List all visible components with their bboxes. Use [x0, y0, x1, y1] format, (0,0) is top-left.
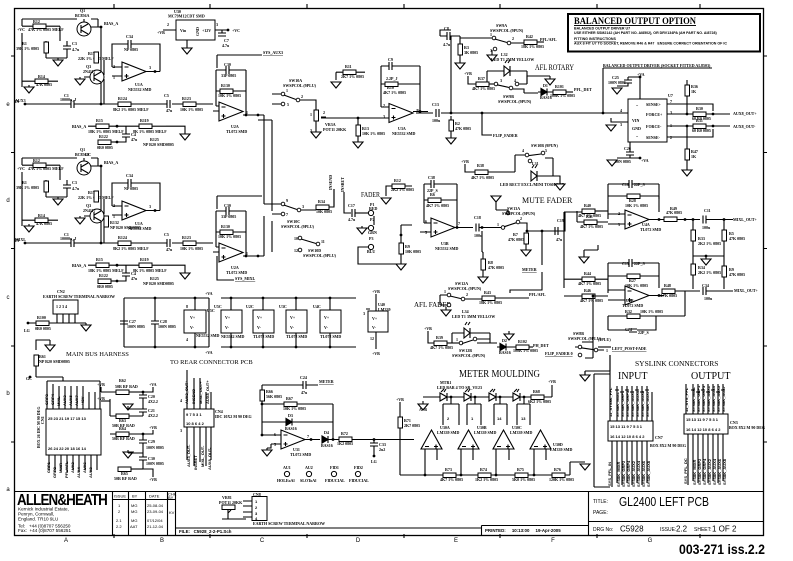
svg-text:+VA: +VA — [149, 382, 157, 387]
resistor R132 — [104, 216, 141, 230]
svg-text:50R RF RAD: 50R RF RAD — [115, 384, 138, 389]
svg-text:d: d — [6, 198, 9, 204]
svg-text:ISSUE: ISSUE — [114, 494, 126, 499]
svg-text:SWSPCOL (9PLU): SWSPCOL (9PLU) — [303, 253, 337, 258]
resistor R63 — [110, 399, 143, 428]
switch SW12A — [440, 289, 482, 307]
svg-text:R42: R42 — [526, 34, 533, 39]
svg-text:R40: R40 — [584, 203, 591, 208]
ground for GND pin — [611, 118, 628, 131]
svg-text:2K2 1% 0805: 2K2 1% 0805 — [391, 187, 414, 192]
svg-text:25 23 21 19 17 15 13: 25 23 21 19 17 15 13 — [48, 416, 87, 421]
resistor R45 — [722, 256, 745, 289]
switch SW13A — [491, 196, 536, 229]
svg-text:100N 0805: 100N 0805 — [146, 461, 164, 466]
capacitor C19 series — [555, 212, 565, 242]
LED D7 — [489, 389, 496, 401]
resistor R40 — [578, 203, 608, 218]
svg-text:GC: GC — [85, 152, 91, 157]
svg-text:G: G — [648, 538, 653, 544]
svg-text:2.2: 2.2 — [676, 525, 688, 534]
ground — [504, 334, 514, 340]
resistor R27 — [608, 274, 659, 288]
svg-text:R100: R100 — [37, 315, 46, 320]
svg-text:2: 2 — [512, 36, 514, 41]
resistor R62 — [115, 378, 144, 395]
svg-text:USE EITHER SSM2142 (AH PART N: USE EITHER SSM2142 (AH PART NO. AI8502),… — [574, 31, 718, 35]
diode D1 — [538, 83, 553, 100]
svg-text:MIXL: MIXL — [15, 237, 26, 242]
svg-text:47K 0805: 47K 0805 — [729, 236, 745, 241]
svg-text:10: 10 — [294, 236, 298, 241]
svg-text:SWSPCOL (9PLU): SWSPCOL (9PLU) — [281, 224, 315, 229]
switch SW12B — [452, 337, 497, 358]
svg-text:D: D — [356, 538, 361, 544]
resistor R100 — [35, 315, 51, 331]
resistor R2 vertical under bus — [449, 116, 471, 138]
capacitor C10 — [608, 180, 659, 219]
svg-text:+VB: +VB — [372, 351, 380, 356]
svg-text:England. TR10 9LU: England. TR10 9LU — [18, 517, 58, 522]
svg-text:47K 0805: 47K 0805 — [729, 272, 745, 277]
resistor R47 — [685, 149, 698, 170]
svg-text:2: 2 — [520, 216, 522, 221]
svg-text:100N 0805: 100N 0805 — [127, 324, 145, 329]
svg-text:MIXR: MIXR — [58, 463, 63, 473]
svg-text:8: 8 — [186, 304, 188, 309]
svg-text:11: 11 — [321, 239, 325, 244]
svg-text:4K7 1% 0805: 4K7 1% 0805 — [580, 298, 603, 303]
ground under regulator — [182, 48, 192, 54]
svg-text:16 14 12 10 8 6 4 2: 16 14 12 10 8 6 4 2 — [686, 427, 721, 432]
diode D4 — [321, 422, 339, 448]
svg-text:1 2 3 4: 1 2 3 4 — [56, 304, 67, 309]
capacitor C25 — [608, 75, 640, 99]
svg-text:TL072 SMD: TL072 SMD — [320, 334, 341, 339]
svg-text:EARTH SCREW TERMINAL NARROW: EARTH SCREW TERMINAL NARROW — [253, 521, 325, 526]
capacitor C28 — [151, 298, 176, 347]
power rails — [221, 298, 356, 347]
wire — [272, 94, 389, 118]
ground — [331, 82, 341, 88]
svg-text:SYS_AUX3: SYS_AUX3 — [263, 50, 283, 55]
resistor R34 — [316, 189, 334, 214]
svg-text:+VB: +VB — [464, 71, 472, 76]
svg-text:100N 0805: 100N 0805 — [158, 324, 176, 329]
top line of title strip — [15, 491, 764, 493]
svg-text:BALANCED OUTPUT DRIVER U7: BALANCED OUTPUT DRIVER U7 — [574, 27, 630, 31]
resistor R37 — [472, 76, 495, 91]
svg-text:1K2 0805: 1K2 0805 — [337, 441, 353, 446]
svg-text:1K: 1K — [691, 154, 697, 159]
svg-text:12: 12 — [370, 336, 374, 341]
svg-text:GRP2: GRP2 — [52, 466, 57, 478]
svg-text:R34: R34 — [318, 199, 325, 204]
svg-text:C9: C9 — [388, 57, 393, 62]
svg-text:4K7 1% 0805: 4K7 1% 0805 — [430, 345, 453, 350]
svg-text:21-12-04: 21-12-04 — [147, 524, 164, 529]
resistor R68 — [528, 389, 551, 404]
svg-text:5K0 1% 0805: 5K0 1% 0805 — [512, 477, 535, 482]
svg-text:SWSPCOL (9PUN): SWSPCOL (9PUN) — [502, 211, 536, 216]
svg-text:KV: KV — [169, 510, 175, 515]
svg-text:V+: V+ — [190, 315, 196, 320]
svg-text:U3C: U3C — [279, 304, 287, 309]
svg-text:AVB: AVB — [419, 407, 427, 412]
LED D6 — [464, 389, 471, 401]
svg-text:56K 0805: 56K 0805 — [266, 394, 282, 399]
svg-text:2.2: 2.2 — [116, 524, 122, 529]
svg-text:2K2 1% 0805: 2K2 1% 0805 — [698, 241, 721, 246]
svg-text:MIXL_OUT+: MIXL_OUT+ — [734, 288, 759, 293]
resistor R3 — [458, 36, 478, 63]
svg-text:9 7 5 3 1: 9 7 5 3 1 — [186, 412, 202, 417]
wire mute bus — [520, 223, 563, 231]
resistor R65 — [114, 467, 143, 481]
svg-text:R68: R68 — [533, 389, 540, 394]
wires below CN3 — [688, 434, 723, 485]
svg-text:1: 1 — [606, 348, 608, 353]
wire U2B out bus — [264, 216, 272, 256]
resistor R49 — [664, 206, 700, 222]
connector CN1 — [36, 407, 101, 455]
svg-text:5: 5 — [545, 148, 547, 153]
op-amp U3A — [383, 103, 418, 136]
svg-text:AUX6: AUX6 — [82, 462, 87, 473]
svg-text:R31: R31 — [696, 118, 703, 123]
svg-text:METER: METER — [319, 379, 334, 384]
ground — [353, 142, 363, 148]
svg-text:003-271 iss.2.2: 003-271 iss.2.2 — [679, 542, 765, 557]
svg-text:FID1: FID1 — [330, 465, 339, 470]
svg-text:R30: R30 — [696, 106, 703, 111]
svg-text:GL2400 LEFT PCB: GL2400 LEFT PCB — [619, 494, 709, 509]
svg-text:V+: V+ — [290, 315, 296, 320]
svg-text:FORCE-: FORCE- — [646, 124, 662, 129]
resistor R73 — [440, 467, 463, 482]
connector CN4 — [184, 409, 214, 427]
ground — [381, 198, 391, 204]
svg-text:3: 3 — [620, 122, 622, 127]
capacitor C20 — [139, 392, 158, 409]
svg-text:4.7u: 4.7u — [348, 217, 356, 222]
svg-text:SWSPCOL (9PUN): SWSPCOL (9PUN) — [498, 99, 532, 104]
svg-text:+VC: +VC — [17, 27, 25, 32]
svg-text:TL072 SMD: TL072 SMD — [290, 452, 311, 457]
svg-text:BY: BY — [132, 494, 138, 499]
svg-text:PAGE:: PAGE: — [593, 510, 608, 516]
svg-text:4: 4 — [514, 78, 516, 83]
svg-text:C19: C19 — [557, 218, 564, 223]
svg-text:NE5532 SMD: NE5532 SMD — [196, 333, 220, 338]
resistor R35 — [722, 220, 745, 257]
svg-text:+VB: +VB — [157, 30, 165, 35]
svg-text:4X2.2: 4X2.2 — [148, 399, 158, 404]
comparator U30D — [530, 430, 572, 452]
svg-text:7: 7 — [286, 212, 288, 217]
svg-text:V+: V+ — [372, 316, 378, 321]
svg-text:SWSPCOL (9PUN): SWSPCOL (9PUN) — [490, 28, 524, 33]
svg-text:+VB: +VB — [149, 477, 157, 482]
ground — [580, 464, 590, 470]
svg-text:U5C: U5C — [214, 304, 222, 309]
svg-text:SYSLINK CONNECTORS: SYSLINK CONNECTORS — [635, 359, 718, 368]
pad FID1 — [325, 465, 345, 483]
svg-text:CN7: CN7 — [655, 435, 663, 440]
svg-text:EARTH SCREW TERMINAL NARROW: EARTH SCREW TERMINAL NARROW — [43, 294, 115, 299]
wires below CN1 — [49, 455, 97, 472]
svg-text:RED: RED — [369, 206, 378, 211]
channel A instance — [15, 8, 213, 150]
svg-text:R11: R11 — [345, 64, 352, 69]
svg-text:BAS16: BAS16 — [499, 350, 511, 355]
pin wires right — [667, 104, 730, 137]
svg-text:LM339 SMD: LM339 SMD — [474, 430, 496, 435]
svg-text:1K: 1K — [691, 89, 697, 94]
connector CN1 labels — [44, 393, 85, 406]
capacitor C24 — [262, 375, 318, 395]
ground — [446, 138, 456, 144]
resistor R101 — [550, 84, 575, 98]
ground — [580, 375, 590, 381]
svg-text:R62: R62 — [119, 378, 126, 383]
svg-text:R48: R48 — [664, 283, 671, 288]
svg-text:SYS_MIXL: SYS_MIXL — [235, 276, 256, 281]
svg-text:4.7K 0805: 4.7K 0805 — [660, 293, 677, 298]
ground — [478, 277, 488, 283]
resistor R67 — [262, 396, 333, 420]
svg-text:NE5532 SMD: NE5532 SMD — [435, 246, 459, 251]
svg-text:7: 7 — [458, 221, 460, 226]
svg-text:FLIP_FADER: FLIP_FADER — [493, 133, 518, 138]
svg-text:10K 0805: 10K 0805 — [405, 249, 421, 254]
IC U4C — [313, 297, 341, 349]
svg-text:LM339 SMD: LM339 SMD — [437, 430, 459, 435]
svg-text:120K 1% 0805: 120K 1% 0805 — [549, 477, 574, 482]
resistor R121b — [386, 178, 414, 196]
output bundle wires — [686, 384, 723, 414]
LED D5 — [440, 389, 447, 401]
svg-text:C: C — [260, 538, 265, 544]
svg-text:AUX8_OUT+: AUX8_OUT+ — [733, 111, 757, 116]
svg-text:4K7 1% 0805: 4K7 1% 0805 — [472, 86, 495, 91]
capacitor C14 — [608, 316, 656, 335]
svg-text:SYS_PFL_IN: SYS_PFL_IN — [607, 462, 612, 486]
svg-text:+VB: +VB — [372, 289, 380, 294]
svg-text:METER: METER — [522, 267, 537, 272]
input bundle labels — [608, 387, 650, 417]
IC U2C — [246, 297, 274, 349]
svg-text:TO REAR CONNECTOR PCB: TO REAR CONNECTOR PCB — [170, 359, 253, 366]
ground — [682, 170, 692, 176]
svg-text:FID2: FID2 — [354, 465, 363, 470]
switch SW9A — [460, 23, 524, 53]
input bundle wires — [610, 355, 652, 421]
svg-text:MG: MG — [131, 503, 137, 508]
svg-text:FORCE+: FORCE+ — [646, 112, 663, 117]
svg-text:AUX2: AUX2 — [70, 462, 75, 473]
svg-text:10K 1% 0805: 10K 1% 0805 — [625, 203, 648, 208]
capacitor C8 — [440, 26, 460, 113]
left ticks — [11, 56, 15, 442]
svg-text:P3: P3 — [369, 236, 373, 241]
svg-text:D2: D2 — [502, 338, 507, 343]
capacitor C33 — [370, 440, 386, 465]
svg-text:4.7u: 4.7u — [443, 42, 451, 47]
ground — [262, 450, 272, 456]
svg-text:1: 1 — [310, 112, 312, 117]
ground — [612, 88, 622, 94]
svg-text:2: 2 — [323, 110, 325, 115]
ground — [441, 310, 451, 316]
svg-text:R73: R73 — [445, 467, 452, 472]
svg-text:7: 7 — [307, 434, 309, 439]
svg-text:0R0 0805: 0R0 0805 — [35, 326, 51, 331]
svg-text:SHEET:: SHEET: — [694, 527, 712, 533]
ground — [45, 345, 55, 351]
svg-text:NE5532 SMD: NE5532 SMD — [392, 131, 416, 136]
svg-text:TL072 SMD: TL072 SMD — [622, 303, 643, 308]
svg-text:INSRET: INSRET — [340, 177, 345, 192]
svg-text:4: 4 — [620, 108, 622, 113]
svg-text:Fax: +44 (0)8707 556251: Fax: +44 (0)8707 556251 — [18, 528, 71, 533]
potentiometer VR3A — [310, 110, 347, 133]
svg-text:INSEND: INSEND — [328, 175, 333, 190]
svg-text:R43: R43 — [484, 290, 491, 295]
svg-text:B: B — [160, 538, 164, 544]
LED L31 — [515, 155, 553, 181]
svg-text:DRG No:: DRG No: — [593, 527, 613, 533]
svg-text:23-09-04: 23-09-04 — [147, 509, 164, 514]
capacitor C26 — [613, 142, 649, 164]
svg-text:MAIN BUS HARNESS: MAIN BUS HARNESS — [66, 351, 129, 358]
svg-text:C17: C17 — [348, 203, 355, 208]
switch SW9B — [494, 78, 538, 104]
svg-text:E: E — [454, 538, 458, 544]
svg-text:PFL/AFL: PFL/AFL — [540, 37, 557, 42]
ground — [123, 404, 133, 410]
svg-text:GND: GND — [632, 126, 641, 131]
svg-text:3: 3 — [180, 428, 182, 433]
svg-text:R39: R39 — [436, 335, 443, 340]
ground — [123, 452, 133, 458]
svg-text:+VB: +VB — [424, 326, 432, 331]
svg-text:AU1: AU1 — [283, 465, 291, 470]
svg-text:22P_S: 22P_S — [638, 330, 649, 335]
svg-text:4K7 1% 0805: 4K7 1% 0805 — [440, 477, 463, 482]
svg-text:INPUT: INPUT — [618, 371, 647, 382]
IC U7 SSM2142 — [620, 93, 673, 142]
svg-text:R46: R46 — [584, 288, 591, 293]
svg-text:47K 0805: 47K 0805 — [666, 210, 682, 215]
svg-text:F: F — [551, 538, 555, 544]
switch SW10D — [294, 236, 337, 258]
svg-text:10 8 6 4 2: 10 8 6 4 2 — [186, 421, 205, 426]
PRINTED strip — [482, 526, 589, 536]
svg-text:V-: V- — [190, 325, 195, 330]
ground input — [585, 355, 610, 487]
svg-text:2K2 1% 0805: 2K2 1% 0805 — [698, 270, 721, 275]
svg-text:1: 1 — [417, 108, 419, 113]
capacitor C7 — [218, 30, 230, 48]
resistor R32 — [608, 291, 685, 330]
svg-text:+VB: +VB — [149, 425, 157, 430]
svg-text:INSRET: INSRET — [193, 455, 198, 470]
svg-text:60 R0 0805: 60 R0 0805 — [692, 128, 711, 133]
svg-text:AUX3: AUX3 — [15, 98, 26, 103]
svg-text:2: 2 — [301, 94, 303, 99]
svg-text:R72: R72 — [341, 431, 348, 436]
resistor R48 — [660, 283, 700, 298]
svg-text:R38: R38 — [477, 163, 484, 168]
resistor R28 — [608, 194, 659, 212]
svg-text:BOX 8X2 M 90 DEG: BOX 8X2 M 90 DEG — [729, 425, 765, 430]
svg-text:R102: R102 — [518, 339, 527, 344]
ground — [455, 63, 465, 69]
svg-text:AFL ROTARY: AFL ROTARY — [535, 63, 574, 72]
FILE strip — [176, 527, 482, 529]
resistor R102 — [513, 339, 538, 353]
svg-text:+VB: +VB — [396, 397, 404, 402]
svg-text:R101: R101 — [555, 84, 564, 89]
switch SW8B — [568, 331, 608, 357]
svg-text:4K7 1% 0805: 4K7 1% 0805 — [578, 281, 601, 286]
resistor R41 — [577, 211, 608, 229]
svg-text:+VB: +VB — [461, 159, 469, 164]
resistor R10 — [381, 82, 420, 95]
svg-text:10K 1% 0805: 10K 1% 0805 — [283, 406, 306, 411]
svg-text:V-: V- — [372, 325, 377, 330]
svg-text:+VA: +VA — [205, 350, 213, 355]
svg-text:R44: R44 — [584, 271, 591, 276]
svg-text:BLU: BLU — [367, 249, 375, 254]
IC U5C box — [184, 298, 220, 347]
svg-text:V-: V- — [257, 325, 262, 330]
svg-text:1K2 1% 0805: 1K2 1% 0805 — [475, 477, 498, 482]
connector CN3 — [684, 414, 728, 434]
svg-text:4K7 1% 0805: 4K7 1% 0805 — [383, 90, 406, 95]
svg-text:R74: R74 — [480, 467, 487, 472]
svg-text:SENSE-: SENSE- — [646, 135, 661, 140]
resistor R11 — [336, 64, 365, 80]
svg-text:AUX8: AUX8 — [88, 467, 93, 478]
resistor R6b — [424, 192, 457, 208]
capacitor C29 — [139, 434, 164, 453]
svg-text:R32: R32 — [625, 309, 632, 314]
svg-text:NP R20 SMD0805: NP R20 SMD0805 — [39, 359, 70, 364]
svg-text:SWSPCOL (9PLU): SWSPCOL (9PLU) — [283, 83, 317, 88]
svg-text:AUX 8 FIT U7 TO SOCKET, REMOVE: AUX 8 FIT U7 TO SOCKET, REMOVE R46 & R47… — [574, 42, 727, 46]
svg-text:+VC: +VC — [232, 28, 240, 33]
capacitor C13b — [608, 259, 659, 293]
resistor R8 — [481, 231, 504, 277]
svg-text:3: 3 — [302, 204, 304, 209]
capacitor C18 series — [474, 215, 501, 238]
switch SW10B — [522, 143, 558, 163]
diode L32 symbol — [487, 60, 527, 84]
svg-text:BOX 26 IDC M 90 DEG: BOX 26 IDC M 90 DEG — [36, 407, 41, 448]
svg-text:100u: 100u — [432, 118, 441, 123]
svg-text:TL072 SMD: TL072 SMD — [640, 227, 661, 232]
resistor R75 — [512, 467, 535, 482]
svg-text:1: 1 — [444, 289, 446, 294]
svg-text:L31: L31 — [532, 161, 539, 166]
svg-text:BOX 8X2 M 90 DEG: BOX 8X2 M 90 DEG — [650, 443, 686, 448]
comparator U30B — [458, 425, 496, 449]
issue table — [113, 492, 176, 536]
svg-text:C29: C29 — [148, 439, 155, 444]
switch SW9A-mid — [281, 78, 316, 107]
